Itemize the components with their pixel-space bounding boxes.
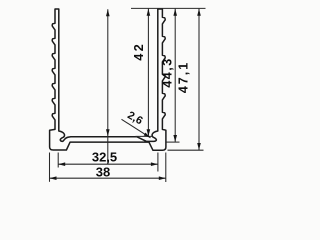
dimension line 32,5 <box>58 163 158 165</box>
arrowhead 32,5 left <box>58 162 65 166</box>
bottom extension to right dim <box>168 149 204 151</box>
aluminum profile outline <box>50 9 166 150</box>
arrowhead dim 47,1 top <box>173 9 177 16</box>
leader arrowhead 2,6 <box>144 133 151 138</box>
extension tick at 142 <box>167 141 180 143</box>
arrowhead dim 42 bottom <box>106 129 110 136</box>
extension line 38 left <box>49 153 51 182</box>
arrowhead dim 42 top <box>106 9 110 16</box>
dimension line 38 <box>50 177 166 179</box>
svg-text:44,3: 44,3 <box>160 57 174 87</box>
svg-text:38: 38 <box>96 165 110 180</box>
arrowhead dim 47,1 bottom <box>173 135 177 142</box>
svg-text:47,1: 47,1 <box>176 61 190 93</box>
svg-text:42: 42 <box>132 42 146 61</box>
arrowhead 38 right <box>159 176 166 180</box>
arrowhead right dim top <box>197 9 201 16</box>
svg-text:32,5: 32,5 <box>92 150 117 165</box>
dimension line 44,3 <box>147 9 149 136</box>
extension line 32,5 left <box>57 153 59 168</box>
extension line 38 right <box>165 153 167 183</box>
dimension line 47,1 mid <box>174 9 176 142</box>
floor extension tick <box>136 135 153 137</box>
leader line 2,6 <box>122 119 151 138</box>
top extension line <box>131 7 206 9</box>
arrowhead 32,5 right <box>151 162 158 166</box>
dimension line right <box>198 9 200 150</box>
svg-text:2,6: 2,6 <box>125 109 144 127</box>
arrowhead dim 44,3 top <box>147 9 151 16</box>
arrowhead 38 left <box>50 176 57 180</box>
arrowhead right dim bottom <box>197 143 201 150</box>
extension line 32,5 right <box>157 153 159 172</box>
dimension line 42 (center) <box>107 9 109 164</box>
arrowhead dim 44,3 bottom <box>147 129 151 136</box>
